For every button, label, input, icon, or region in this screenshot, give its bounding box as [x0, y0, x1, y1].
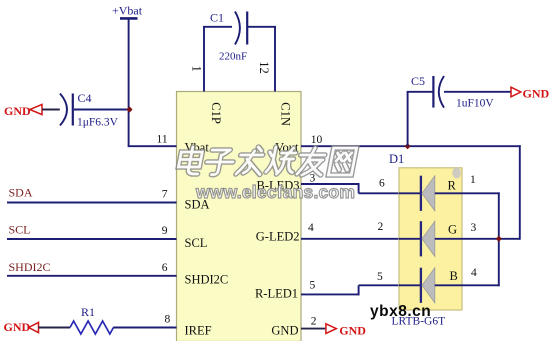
wire GND to C4	[42, 109, 60, 111]
wire Vout net	[301, 145, 521, 147]
svg-text:C1P: C1P	[209, 102, 223, 124]
wire anode bracket pins 1-4	[498, 192, 500, 286]
svg-text:12: 12	[257, 61, 271, 74]
ground GND (C4 left)	[4, 104, 42, 118]
svg-text:GND: GND	[339, 324, 366, 338]
svg-text:R1: R1	[81, 305, 95, 319]
wire B-LED3 upper	[301, 183, 360, 185]
svg-text:4: 4	[308, 222, 314, 234]
LED package D1 body	[399, 168, 462, 310]
junction on Vbat net	[126, 106, 132, 112]
junction Vout / C5	[405, 143, 411, 149]
svg-text:4: 4	[471, 267, 477, 279]
svg-text:C4: C4	[78, 91, 92, 105]
wire B-LED3 to LED pin 6	[359, 192, 399, 194]
capacitor C1	[235, 12, 247, 45]
wire R1 to IREF	[113, 327, 176, 329]
svg-text:C1N: C1N	[279, 102, 293, 126]
svg-text:C5: C5	[411, 74, 425, 88]
wire C5 left	[407, 91, 433, 93]
svg-text:SHDI2C: SHDI2C	[9, 260, 51, 274]
svg-text:+Vbat: +Vbat	[112, 4, 143, 18]
wire SHDI2C	[7, 275, 177, 277]
svg-text:R: R	[448, 179, 457, 193]
wire Vbat to pin 11	[128, 145, 177, 147]
wire Vout right vertical	[519, 145, 521, 239]
wire SDA	[7, 202, 177, 204]
wire R-LED1 step	[358, 285, 360, 295]
wire Vbat vertical	[128, 19, 130, 146]
svg-text:SDA: SDA	[9, 186, 33, 200]
capacitor C5	[433, 76, 444, 108]
wire LED B anode	[435, 284, 500, 286]
svg-text:G: G	[448, 223, 457, 237]
svg-text:5: 5	[310, 280, 316, 292]
capacitor C1 wiring right vertical (pin 12)	[274, 27, 276, 92]
svg-text:6: 6	[162, 262, 168, 274]
ground GND (R1 row)	[4, 320, 39, 334]
watermark www.elecfans.com	[196, 182, 355, 203]
ground GND (C5 right)	[511, 86, 550, 100]
LED R (diode)	[399, 176, 435, 211]
wire C5 to GND	[444, 91, 511, 93]
power +Vbat	[112, 4, 143, 19]
svg-text:6: 6	[379, 178, 385, 190]
svg-text:3: 3	[471, 222, 477, 234]
svg-text:1: 1	[470, 174, 476, 186]
svg-text:2: 2	[311, 315, 317, 327]
wire LED R anode	[435, 192, 500, 194]
svg-text:SCL: SCL	[9, 223, 31, 237]
wire C1 top left	[203, 26, 232, 28]
polarity mark	[452, 168, 461, 179]
svg-text:GND: GND	[4, 320, 31, 334]
wire GND pin 2 stub	[301, 328, 325, 330]
wire C1 top right	[248, 26, 276, 28]
wire GND to R1	[39, 327, 71, 329]
svg-text:1: 1	[190, 66, 204, 72]
capacitor C1 wiring left vertical (pin 1)	[203, 27, 205, 92]
svg-text:GND: GND	[271, 323, 298, 337]
svg-text:R-LED1: R-LED1	[255, 286, 298, 300]
svg-text:SHDI2C: SHDI2C	[185, 273, 229, 287]
svg-text:Vout: Vout	[275, 141, 299, 155]
wire R-LED1 to LED pin 5	[359, 284, 399, 286]
svg-text:B: B	[450, 269, 458, 283]
svg-text:11: 11	[157, 134, 168, 146]
resistor R1	[70, 321, 113, 334]
svg-text:5: 5	[377, 271, 383, 283]
svg-text:D1: D1	[389, 152, 404, 166]
svg-text:2: 2	[378, 221, 384, 233]
wire G-LED2 to LED pin 2	[301, 238, 399, 240]
svg-text:1μF6.3V: 1μF6.3V	[77, 117, 119, 129]
svg-text:8: 8	[165, 313, 171, 325]
svg-text:9: 9	[162, 225, 168, 237]
LED B (diode)	[399, 268, 435, 303]
svg-text:7: 7	[162, 189, 168, 201]
svg-text:G-LED2: G-LED2	[256, 229, 300, 243]
svg-text:220nF: 220nF	[219, 50, 247, 62]
svg-text:10: 10	[311, 134, 323, 146]
junction anode net	[496, 236, 502, 242]
svg-text:IREF: IREF	[185, 323, 212, 337]
wire R-LED1 lower	[301, 293, 360, 295]
wire B-LED3 step	[358, 183, 360, 193]
svg-text:GND: GND	[523, 86, 550, 100]
IC U1 body	[177, 92, 302, 341]
wire C4 to junction	[74, 109, 130, 111]
capacitor C4	[60, 94, 73, 126]
ground GND (pin 2)	[326, 324, 366, 338]
wire SCL	[7, 238, 177, 240]
svg-text:GND: GND	[4, 104, 31, 118]
svg-text:C1: C1	[210, 10, 224, 24]
wire C5 riser	[407, 92, 409, 146]
watermark ybx8.cn	[370, 303, 431, 321]
svg-text:SCL: SCL	[185, 236, 208, 250]
svg-text:1uF10V: 1uF10V	[456, 97, 494, 109]
svg-text:Vbat: Vbat	[185, 141, 210, 155]
LED G (diode)	[399, 221, 435, 256]
wire LED G anode	[435, 238, 520, 240]
